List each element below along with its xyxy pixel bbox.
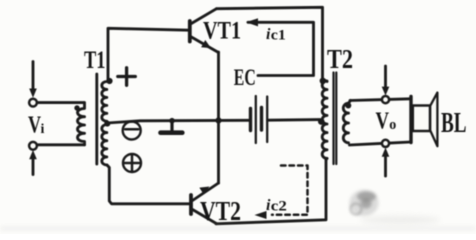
svg-text:i: i	[41, 122, 45, 137]
svg-text:BL: BL	[441, 108, 467, 139]
svg-text:T1: T1	[84, 47, 106, 74]
svg-text:VT1: VT1	[203, 17, 241, 44]
svg-text:c1: c1	[271, 28, 286, 44]
svg-text:VT2: VT2	[200, 196, 241, 226]
svg-text:o: o	[389, 117, 396, 133]
svg-text:EC: EC	[234, 65, 256, 91]
svg-text:V: V	[376, 108, 390, 134]
svg-text:T2: T2	[327, 44, 353, 74]
svg-text:V: V	[28, 112, 41, 138]
svg-text:c2: c2	[271, 198, 287, 214]
